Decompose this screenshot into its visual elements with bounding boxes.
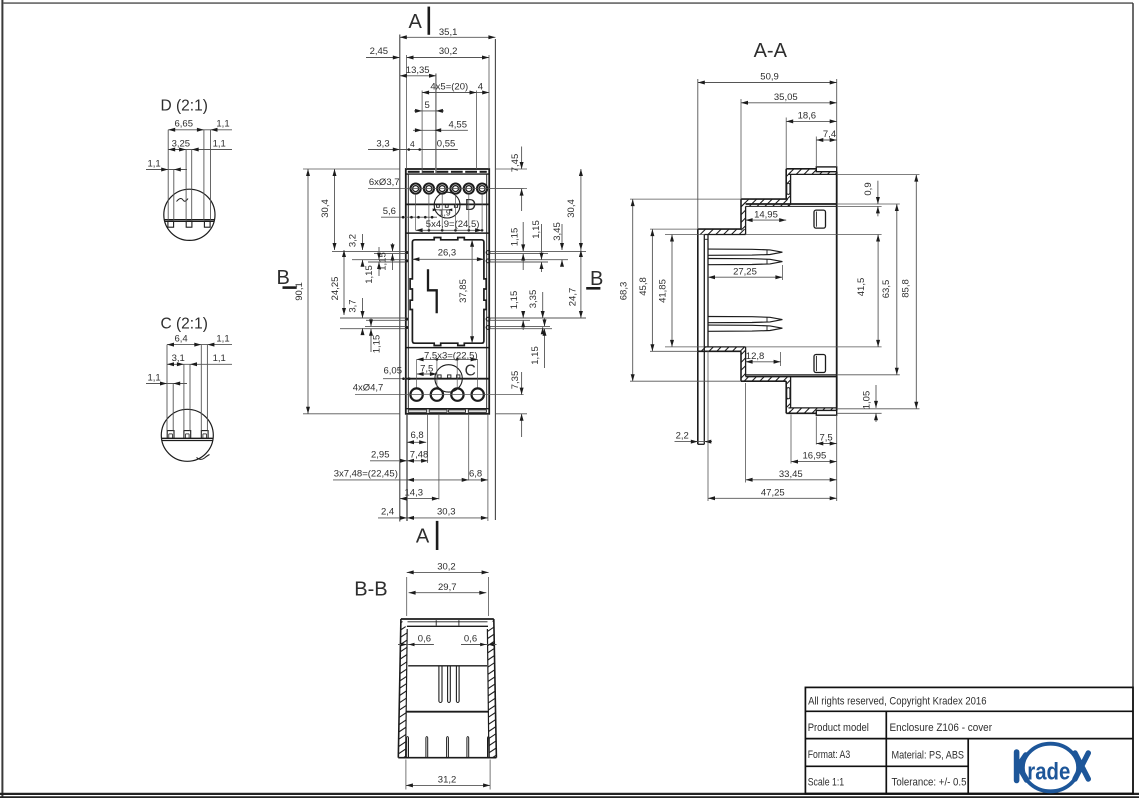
- svg-text:35,05: 35,05: [774, 92, 798, 103]
- section A-A: hatch band2: [698, 229, 745, 234]
- detail C: dim 1,1 left: [146, 383, 187, 385]
- front view: dim 30,2: [407, 57, 490, 59]
- section A-A: dim 47,25: [708, 497, 837, 499]
- svg-text:4,55: 4,55: [449, 119, 468, 130]
- front view: dim 1,15 fin1 right: [522, 222, 524, 251]
- section A-A: outline band3: [698, 350, 741, 352]
- section B-B: lower floor line: [406, 711, 489, 713]
- detail D: wall lines: [165, 219, 215, 221]
- detail D: extension lines up from pin edges: [167, 130, 169, 220]
- front view: bottom edge extension left: [303, 413, 400, 415]
- svg-text:30,3: 30,3: [437, 507, 456, 518]
- section B-B: inner wall lines: [406, 629, 408, 758]
- front view: dim 5,6 line with dots: [381, 216, 437, 218]
- section A-A: four snap pins: [708, 249, 782, 255]
- front view: left fin 3 surfaces + extension lines: [340, 317, 406, 319]
- section A-A: floor lines: [746, 374, 837, 376]
- front view: right fin 3 surfaces + extension lines: [489, 317, 586, 319]
- svg-text:1,15: 1,15: [509, 228, 520, 247]
- front view: dim 26,3: [412, 258, 484, 260]
- front view: dim 30,4 right: [580, 169, 582, 250]
- svg-text:1,1: 1,1: [148, 372, 161, 383]
- svg-text:1,1: 1,1: [148, 158, 161, 169]
- front view: dim 13,35: [400, 75, 436, 77]
- section B-B: ext verticals 30,2: [406, 577, 408, 616]
- section A-A: hatch wall1 top: [741, 199, 746, 234]
- front view: right fin 4 surfaces + extension lines: [489, 325, 550, 327]
- section A-A: bottom DIN ledge: [816, 410, 836, 415]
- section A-A: dim 27,25: [781, 265, 783, 280]
- section A-A: dim 12,8: [780, 352, 782, 366]
- section A-A: flange bottom cap: [698, 443, 705, 445]
- front view: dim 1,9 pins: [435, 209, 451, 211]
- svg-text:2,2: 2,2: [676, 431, 689, 442]
- front view: long extension line right (overall width 35,1): [494, 39, 496, 520]
- front view: hole centre line 4xO4,7: [355, 394, 524, 396]
- detail C: break squiggle: [197, 455, 210, 460]
- svg-text:14,3: 14,3: [405, 488, 424, 499]
- front view: dim 5: [414, 110, 444, 112]
- section A-A: inner wall face: [707, 235, 709, 347]
- svg-text:Scale 1:1: Scale 1:1: [808, 776, 845, 788]
- section B-B: dim 31,2: [406, 784, 490, 786]
- front view: platform edge line upper: [406, 232, 489, 234]
- section A-A: hatch bottom step slab: [741, 377, 788, 382]
- front view: inner wall line left: [407, 174, 409, 409]
- section B-B: dim 0,6 right: [461, 644, 497, 646]
- section A-A: dim 2,2: [675, 441, 713, 443]
- front view: dim 30,4 left: [334, 169, 336, 250]
- svg-text:3,45: 3,45: [552, 222, 563, 241]
- front view: extension lines to top dims: [406, 55, 408, 169]
- section A-A: dim 18,6: [786, 120, 837, 122]
- title block: Kradex logo letter X: [1075, 753, 1088, 779]
- front view: bottom hole extension lines: [416, 359, 418, 388]
- detail D: break squiggle: [177, 199, 189, 202]
- svg-text:26,3: 26,3: [438, 247, 457, 258]
- svg-text:A-A: A-A: [754, 40, 788, 62]
- front view: right fin 2 surfaces + extension lines: [489, 259, 568, 261]
- svg-text:2,95: 2,95: [371, 450, 390, 461]
- svg-text:3x7,48=(22,45): 3x7,48=(22,45): [334, 469, 398, 480]
- section A-A: outline bottom step: [741, 380, 786, 382]
- front view: right fin 2 root circle: [486, 259, 490, 263]
- svg-text:6,65: 6,65: [175, 119, 194, 130]
- front view: dim 24,25: [343, 250, 345, 315]
- detail C: wall lines: [162, 437, 213, 439]
- svg-text:5x4,9=(24,5): 5x4,9=(24,5): [426, 219, 480, 230]
- detail D: three pin tabs below wall: [168, 221, 174, 227]
- front view: dim 3,35 right: [542, 292, 544, 318]
- svg-text:41,5: 41,5: [856, 278, 867, 297]
- section A-A: dim 16,95: [791, 461, 837, 463]
- section A-A: cap face latch bump bottom: [787, 388, 790, 399]
- front view: right fin 1 root circle: [486, 251, 490, 255]
- svg-text:7,45: 7,45: [510, 154, 521, 173]
- section A-A: hatch wall1 bottom: [741, 347, 746, 378]
- svg-text:3,3: 3,3: [376, 139, 389, 150]
- front view: left fin 1 root dot: [406, 251, 409, 254]
- section A-A: dim 85,8: [915, 175, 917, 409]
- front view: top edge extension left: [303, 168, 400, 170]
- svg-text:1,15: 1,15: [371, 335, 382, 354]
- title block: row lines: [805, 710, 1133, 712]
- front view: detail C circle: [435, 365, 462, 392]
- detail C: extension lines up from pin edges: [166, 345, 168, 431]
- front view: dim 2,95: [370, 460, 407, 462]
- svg-text:16,95: 16,95: [803, 451, 827, 462]
- front view: dim chain 3,3 / 4 / 0,55: [368, 149, 458, 151]
- section A-A: hatch top cap slab: [786, 169, 837, 175]
- section A-A: ext verticals top dims: [697, 79, 699, 229]
- svg-text:5: 5: [425, 100, 430, 111]
- front view: chain dim 5x4,9 line: [416, 229, 483, 231]
- section A-A: dim 50,9: [698, 82, 837, 84]
- svg-text:Material: PS, ABS: Material: PS, ABS: [892, 749, 965, 761]
- svg-text:B-B: B-B: [354, 579, 387, 601]
- section A-A: dim 35,05: [741, 102, 837, 104]
- front view: right fin 1 surfaces + extension lines: [489, 250, 586, 252]
- front view: dim 4x5=(20): [422, 92, 476, 94]
- sheet top border: [4, 2, 1134, 4]
- front view: dim 24,7 right: [580, 250, 582, 318]
- section A-A: dim 7,5 bottom: [816, 443, 836, 445]
- section A-A: hatch cap left face bottom: [786, 377, 790, 414]
- svg-text:1,1: 1,1: [213, 353, 226, 364]
- svg-text:0,6: 0,6: [464, 633, 477, 644]
- front view: dim 4,55: [413, 129, 468, 131]
- front view: dim 14,3: [400, 498, 439, 500]
- svg-text:1,15: 1,15: [530, 346, 541, 365]
- front view: chain dim 7,5x3 line: [417, 358, 478, 360]
- svg-text:Tolerance: +/- 0.5: Tolerance: +/- 0.5: [892, 776, 967, 788]
- svg-text:6,05: 6,05: [384, 366, 403, 377]
- detail D: dim 3,25 and 1,1: [168, 149, 232, 151]
- section A-A: outline cap left face top: [785, 169, 787, 199]
- svg-text:Format: A3: Format: A3: [808, 749, 851, 761]
- section B-B: dim 30,2: [407, 571, 489, 573]
- svg-text:24,25: 24,25: [330, 277, 341, 301]
- section A-A: dim 1,05: [875, 385, 877, 408]
- section A-A: ceiling lines: [746, 203, 837, 205]
- detail C: three pin tabs above wall: [167, 431, 174, 439]
- front view: three pins above wall (detail C feature): [438, 375, 441, 378]
- front view: dim 6,05 with dots: [383, 378, 417, 380]
- section A-A: hatch band3: [698, 347, 745, 351]
- section A-A: inner wall notch: [704, 238, 708, 240]
- svg-text:7,48: 7,48: [410, 450, 429, 461]
- svg-text:A: A: [409, 11, 423, 33]
- front view: platform edge line lower: [406, 347, 489, 349]
- front view: hole extension lines down: [415, 194, 417, 231]
- svg-text:1,15: 1,15: [364, 265, 375, 284]
- section A-A: top DIN ledge: [816, 167, 836, 172]
- section A-A: outline band2: [698, 228, 741, 230]
- front view: body outline: [406, 169, 489, 414]
- section A-A: ext verticals bottom dims: [707, 351, 709, 501]
- front view: dim 1,15 fin2 left: [378, 247, 380, 260]
- front view: dim 4 (top right): [477, 92, 490, 94]
- svg-text:30,2: 30,2: [437, 562, 456, 573]
- section A-A: ext lines left: [630, 198, 741, 200]
- front view: wall edge line at detail C: [406, 378, 489, 380]
- section A-A: dim 41,85: [671, 235, 673, 347]
- front view: dim 1,15 fin4 right: [544, 318, 546, 326]
- svg-text:85,8: 85,8: [901, 279, 912, 298]
- front view: bottom cap vent slots: [408, 410, 426, 412]
- section A-A: ext lines right: [837, 174, 920, 176]
- front view: dim 2,4: [378, 517, 407, 519]
- section A-A: outline step1: [741, 198, 786, 200]
- svg-text:Product model: Product model: [808, 722, 869, 734]
- svg-text:1,1: 1,1: [213, 138, 226, 149]
- title block: Kradex logo ellipse: [1023, 744, 1078, 792]
- svg-text:C: C: [465, 362, 476, 379]
- section B-B: top slab inner edge: [407, 625, 488, 627]
- front view: dim 7,5: [417, 373, 437, 375]
- front view: zigzag wall line inside opening: [428, 269, 437, 313]
- front view: bottom extension lines: [406, 414, 408, 521]
- svg-text:41,85: 41,85: [658, 279, 669, 303]
- svg-text:3,35: 3,35: [528, 290, 539, 309]
- front view: bottom cap top edge: [406, 408, 489, 410]
- svg-text:5,6: 5,6: [383, 206, 396, 217]
- svg-text:35,1: 35,1: [439, 27, 458, 38]
- svg-text:7,4: 7,4: [823, 129, 836, 140]
- svg-text:37,85: 37,85: [458, 279, 469, 303]
- svg-text:6,8: 6,8: [411, 430, 424, 441]
- title block: Kradex logo letter K: [1017, 752, 1027, 781]
- section A-A: hatch bottom cap slab: [786, 408, 837, 413]
- section A-A: outline top cap: [786, 168, 816, 170]
- svg-text:4: 4: [478, 81, 483, 92]
- section A-A: dim 41,5: [877, 235, 879, 347]
- svg-text:6xØ3,7: 6xØ3,7: [369, 177, 400, 188]
- svg-text:0,6: 0,6: [418, 633, 431, 644]
- section A-A: dim 14,95: [746, 219, 787, 221]
- svg-text:1,15: 1,15: [531, 220, 542, 239]
- svg-text:90,1: 90,1: [294, 282, 305, 301]
- section A-A: dim 45,8: [651, 229, 653, 351]
- detail D: view circle: [164, 189, 215, 240]
- section A-A: dim 33,45: [746, 479, 837, 481]
- section A-A: dim 7,4: [816, 139, 836, 141]
- section A-A: outline bottom cap: [786, 412, 816, 414]
- detail D: dim 6,65 and 1,1: [168, 129, 232, 131]
- detail C: dim 6,4 and 1,1: [167, 344, 232, 346]
- section B-B: centre pins: [438, 666, 440, 702]
- section A-A: outline wall1 bottom: [740, 351, 742, 381]
- detail C: dim 3,1 and 1,1: [167, 363, 232, 365]
- front view: dim 2,45: [366, 57, 400, 59]
- svg-text:14,95: 14,95: [754, 209, 778, 220]
- front view: dim 3,7: [362, 298, 364, 318]
- front view: dim 7,48: [407, 460, 428, 462]
- section A-A: latch window bottom: [814, 355, 826, 373]
- sheet right border: [1132, 3, 1134, 794]
- svg-text:4xØ4,7: 4xØ4,7: [353, 383, 384, 394]
- title block: outer frame: [805, 687, 1133, 793]
- svg-text:27,25: 27,25: [733, 266, 757, 277]
- front view: dim 1,15 fin4 left: [370, 318, 372, 326]
- svg-text:C (2:1): C (2:1): [161, 315, 208, 332]
- svg-text:30,2: 30,2: [439, 46, 458, 57]
- front view: long extension line left (overall width 35,1): [399, 35, 401, 522]
- svg-text:D: D: [465, 197, 476, 214]
- section B-B: top slab slot line: [408, 621, 488, 623]
- front view: inner wall line right: [486, 174, 488, 409]
- sheet left border: [1, 0, 3, 798]
- front view: central opening with side bumps: [410, 238, 486, 346]
- section B-B: dim 29,7: [409, 592, 487, 594]
- svg-text:33,45: 33,45: [779, 469, 803, 480]
- front view: left fin 2 root dot: [406, 259, 409, 262]
- svg-text:68,3: 68,3: [618, 282, 629, 301]
- svg-text:45,8: 45,8: [638, 277, 649, 296]
- front view: right fin 4 root circle: [486, 326, 490, 330]
- section A-A: hatch cap left face top: [786, 169, 790, 207]
- section A-A: dim 63,5: [896, 204, 898, 375]
- section B-B: dim 0,6 left: [398, 644, 434, 646]
- front view: dim 35,1: [400, 36, 496, 38]
- section A-A: latch window top: [814, 210, 826, 228]
- svg-text:2,4: 2,4: [381, 507, 394, 518]
- front view: top cap bottom edge: [406, 173, 489, 175]
- section B-B: ext verticals 31,2: [405, 760, 407, 790]
- sheet bottom border double line: [0, 793, 1139, 795]
- front view: 6 mounting holes top row: [411, 184, 421, 194]
- svg-text:rade: rade: [1027, 758, 1070, 785]
- svg-text:63,5: 63,5: [881, 280, 892, 299]
- section B-B: bottom vent slots: [406, 738, 408, 758]
- section A-A: outline wall1 top: [740, 199, 742, 229]
- front view: dim 7,45 right: [496, 168, 527, 170]
- front view: left fin 4 root dot: [406, 326, 409, 329]
- section B-B: outer outline: [398, 619, 401, 758]
- section A-A: right face: [836, 172, 838, 411]
- svg-text:50,9: 50,9: [760, 72, 779, 83]
- section A-A: cap face latch bump top: [787, 183, 790, 194]
- front view: dim 37,85 vertical: [471, 240, 473, 343]
- section A-A: flange outer face: [697, 229, 699, 444]
- svg-text:A: A: [416, 526, 430, 548]
- detail D: dim 1,1 left: [146, 169, 187, 171]
- svg-text:3,2: 3,2: [347, 234, 358, 247]
- section B-B: upper floor line: [408, 665, 487, 667]
- section A-A: dim 0,9: [877, 181, 879, 204]
- svg-text:1,9: 1,9: [439, 208, 451, 218]
- front view: detail D circle: [434, 192, 460, 218]
- svg-text:Enclosure Z106 - cover: Enclosure Z106 - cover: [890, 722, 993, 734]
- svg-text:31,2: 31,2: [438, 775, 457, 786]
- section A-A: flange inner face: [703, 235, 705, 445]
- svg-text:30,4: 30,4: [566, 199, 577, 218]
- front view: left fin 2 surfaces + extension lines: [352, 259, 406, 261]
- svg-text:4: 4: [410, 139, 415, 149]
- section A-A: hatch step1 slab: [741, 199, 791, 206]
- svg-text:12,8: 12,8: [746, 351, 765, 362]
- front view: 4 mounting holes bottom row: [410, 388, 422, 400]
- front view: dim 3,2: [362, 234, 364, 250]
- front view: left fin 3 root dot: [406, 318, 409, 321]
- front view: dim 6,8 right below: [469, 479, 488, 481]
- front view: dim 6,8 left below: [407, 441, 426, 443]
- svg-text:3,7: 3,7: [347, 299, 358, 312]
- front view: dim 1,15 fin3 right: [522, 311, 524, 318]
- svg-text:1,1: 1,1: [216, 333, 229, 344]
- front view: top cap vent slots: [408, 171, 420, 173]
- front view: dim 1,15 fin2 right: [541, 224, 543, 260]
- front view: wall edge line at detail D: [406, 203, 489, 205]
- front view: three pins below wall (detail D feature): [437, 205, 440, 208]
- svg-text:1,15: 1,15: [509, 291, 520, 310]
- title block: column lines: [885, 711, 887, 793]
- svg-text:All rights reserved, Copyright: All rights reserved, Copyright Kradex 20…: [808, 696, 986, 708]
- front view: dim 1,15 fin1 left: [392, 243, 394, 251]
- svg-text:24,7: 24,7: [568, 288, 579, 307]
- svg-text:B: B: [590, 268, 603, 290]
- svg-text:7,5: 7,5: [420, 363, 433, 374]
- svg-text:6,4: 6,4: [175, 333, 188, 344]
- front view: dim 30,3: [407, 517, 488, 519]
- svg-text:47,25: 47,25: [761, 487, 785, 498]
- svg-text:D (2:1): D (2:1): [161, 97, 208, 114]
- svg-text:4x5=(20): 4x5=(20): [430, 81, 468, 92]
- section A-A: dim 68,3: [632, 199, 634, 381]
- svg-text:B: B: [277, 267, 290, 289]
- svg-text:30,4: 30,4: [320, 199, 331, 218]
- svg-text:0,55: 0,55: [437, 139, 456, 150]
- svg-text:7,35: 7,35: [510, 371, 521, 390]
- front view: hole centre line 6xO3,7: [368, 188, 524, 190]
- svg-text:1,1: 1,1: [216, 119, 229, 130]
- front view: left fin 1 surfaces + extension lines: [332, 250, 406, 252]
- front view: right fin 3 root circle: [486, 317, 490, 321]
- svg-text:6,8: 6,8: [469, 469, 482, 480]
- detail C: view circle: [161, 409, 213, 461]
- section A-A: outline cap left face bottom: [785, 381, 787, 413]
- front view: dim 3,45 right: [561, 224, 563, 250]
- front view: left fin 4 surfaces + extension lines: [365, 325, 406, 327]
- svg-text:0,9: 0,9: [863, 182, 874, 195]
- svg-text:13,35: 13,35: [406, 65, 430, 76]
- svg-text:3,1: 3,1: [172, 353, 185, 364]
- front view: dim 90,1: [307, 169, 309, 414]
- svg-text:2,45: 2,45: [370, 46, 389, 57]
- svg-text:29,7: 29,7: [438, 582, 457, 593]
- front view: dim 7,35 right: [496, 413, 527, 415]
- front view: dim 3x7,48=(22,45): [333, 479, 469, 481]
- svg-text:3,25: 3,25: [172, 138, 191, 149]
- svg-text:7,5: 7,5: [820, 433, 833, 444]
- svg-text:18,6: 18,6: [798, 111, 817, 122]
- svg-text:1,05: 1,05: [862, 391, 873, 410]
